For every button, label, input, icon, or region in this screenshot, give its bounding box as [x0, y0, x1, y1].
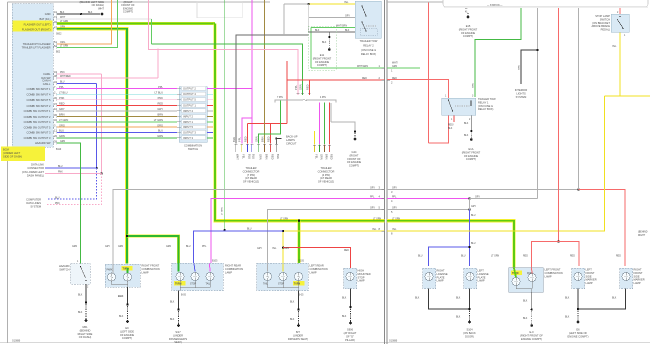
svg-text:GRN: GRN [60, 26, 65, 28]
svg-text:S906: S906 [347, 328, 354, 332]
right front combination lamp box [105, 264, 140, 287]
BCM pin ticks [54, 13, 57, 145]
svg-text:LAMP: LAMP [545, 274, 552, 278]
svg-text:(RIGHT FRONT: (RIGHT FRONT [313, 56, 332, 60]
svg-text:GRN: GRN [72, 246, 77, 248]
svg-text:LEFT REAR: LEFT REAR [310, 264, 324, 268]
svg-text:PILLAR): PILLAR) [345, 338, 355, 342]
right rear combination lamp caption [225, 264, 243, 275]
svg-text:GRY: GRY [157, 107, 163, 111]
hazard switch caption [59, 264, 70, 271]
svg-text:GRN: GRN [284, 248, 289, 250]
svg-text:INTERIOR: INTERIOR [515, 88, 528, 92]
svg-text:PNK: PNK [55, 203, 60, 205]
svg-text:LICENSE: LICENSE [437, 272, 448, 276]
svg-text:OF ENGINE: OF ENGINE [120, 333, 135, 337]
svg-text:SYSTEM: SYSTEM [516, 95, 527, 99]
svg-text:GRN: GRN [519, 65, 521, 70]
wire PPL switch to trailer run [207, 88, 252, 90]
svg-text:LIGHTS: LIGHTS [516, 91, 526, 95]
right page WHT/GRN stub [387, 67, 420, 69]
svg-text:ORG: ORG [60, 42, 65, 44]
wire LT GRN trailer lft flasher [57, 0, 117, 48]
svg-text:GRN: GRN [118, 246, 123, 248]
E1A caption [462, 147, 481, 161]
svg-text:COMBI SW OUTPUT 2: COMBI SW OUTPUT 2 [24, 115, 51, 119]
svg-text:BRN: BRN [260, 136, 264, 142]
svg-text:LT GRN: LT GRN [491, 256, 500, 258]
right page GRY run 1 [387, 189, 579, 191]
svg-text:YEL: YEL [314, 154, 318, 159]
svg-text:HAZARD: HAZARD [59, 264, 70, 268]
svg-text:RED: RED [270, 154, 274, 160]
svg-text:LT BLU: LT BLU [154, 90, 163, 94]
gray riser x308 [308, 4, 310, 32]
svg-text:(RIGHT FRONT: (RIGHT FRONT [462, 150, 481, 154]
svg-text:OUTPUT 4: OUTPUT 4 [183, 92, 196, 96]
wire LT BLU stub [207, 93, 213, 95]
svg-text:PPL: PPL [238, 137, 242, 142]
svg-text:COMBINATION: COMBINATION [184, 144, 202, 148]
svg-text:(ON FUSE &: (ON FUSE & [478, 104, 493, 108]
wire GRY front park feed [113, 190, 384, 265]
relay 1 caption [478, 97, 496, 111]
svg-text:GRN: GRN [319, 154, 323, 160]
svg-text:RIGHT: RIGHT [638, 235, 646, 237]
svg-text:PPL: PPL [370, 197, 375, 199]
svg-text:BLU: BLU [418, 256, 423, 258]
BCM location label text [3, 148, 22, 159]
stop lamp switch internals [617, 19, 623, 28]
svg-text:HIGH: HIGH [358, 269, 365, 273]
svg-text:BLK: BLK [60, 12, 65, 14]
svg-text:COMBINATION: COMBINATION [142, 267, 160, 271]
svg-text:COMBI SW INPUT 2: COMBI SW INPUT 2 [26, 104, 51, 108]
svg-text:LAMPS: LAMPS [286, 138, 295, 142]
svg-text:RED: RED [570, 256, 575, 258]
svg-text:ENGINE COMPT): ENGINE COMPT) [568, 335, 589, 339]
svg-text:TRAILER RT FLASHER: TRAILER RT FLASHER [23, 42, 51, 46]
svg-text:RED: RED [59, 102, 65, 106]
svg-text:LEFT: LEFT [478, 269, 485, 273]
wire RED stub [207, 105, 213, 107]
svg-text:BLK: BLK [464, 135, 469, 137]
svg-text:OUTPUT 3: OUTPUT 3 [183, 130, 196, 134]
svg-text:BLU: BLU [55, 197, 60, 199]
svg-text:RIGHT: RIGHT [634, 268, 642, 272]
svg-text:SIDE: SIDE [634, 274, 640, 278]
dark feeder wire from relay area to trailer pin [236, 35, 309, 144]
combination switch row labels [183, 87, 196, 140]
svg-text:BLK: BLK [342, 298, 347, 300]
svg-text:E9: E9 [125, 326, 129, 330]
svg-text:BLU: BLU [60, 82, 65, 84]
yellow highlight flasher out labels [13, 21, 53, 32]
svg-text:BLU: BLU [247, 154, 251, 159]
svg-text:BLU: BLU [186, 246, 191, 248]
svg-text:YEL: YEL [344, 2, 349, 4]
relay 2 caption [360, 39, 378, 56]
BCM top note text (behind left side of dash) [80, 0, 105, 10]
svg-text:WHT/RED: WHT/RED [60, 76, 71, 78]
svg-text:(7 PIN): (7 PIN) [247, 173, 255, 177]
svg-text:DOOR): DOOR) [465, 335, 474, 339]
svg-text:BLK: BLK [322, 42, 327, 44]
svg-text:PPL: PPL [158, 85, 163, 89]
svg-text:(UNDER LEFT: (UNDER LEFT [3, 151, 21, 155]
svg-text:BLK: BLK [290, 319, 295, 321]
svg-text:FRONT OF: FRONT OF [347, 157, 361, 161]
WHT/GRN riser to divider crossing [310, 28, 312, 69]
svg-text:BLK: BLK [232, 137, 236, 142]
svg-text:SWITCH: SWITCH [188, 147, 198, 151]
svg-text:MARKER: MARKER [634, 278, 645, 282]
svg-text:OF DASH): OF DASH) [79, 335, 92, 339]
svg-text:LAMP: LAMP [225, 270, 232, 274]
svg-text:BLU: BLU [471, 215, 476, 217]
svg-text:RED: RED [523, 256, 528, 258]
svg-text:WHT/: WHT/ [392, 63, 398, 65]
ground G24 wire [330, 103, 332, 122]
high mounted stop lamp caption [358, 269, 371, 283]
svg-text:STOP LAMP: STOP LAMP [595, 14, 610, 18]
trailer connector 4pin caption [318, 166, 335, 184]
svg-text:GND: GND [45, 12, 51, 16]
right rear lamp ground chain [178, 291, 180, 309]
svg-text:PLATE: PLATE [478, 275, 486, 279]
svg-text:(LEFT SIDE: (LEFT SIDE [120, 329, 134, 333]
svg-text:BLK: BLK [290, 302, 295, 304]
wire YEL into relay2 [309, 3, 355, 5]
svg-text:OF ENGINE: OF ENGINE [315, 60, 330, 64]
wire BRN stub [207, 116, 213, 118]
svg-text:RED: RED [305, 84, 309, 90]
svg-text:TRAILER TOW: TRAILER TOW [360, 39, 378, 43]
svg-text:BLK: BLK [612, 298, 617, 300]
LT GRN flasher left run down and across page (highlighted) [215, 24, 384, 221]
svg-text:LAMP: LAMP [310, 270, 317, 274]
pins above bracket ticks [297, 93, 311, 95]
svg-text:LT GRN: LT GRN [60, 21, 69, 23]
svg-text:LAMP: LAMP [437, 279, 444, 283]
stop lamp switch caption [592, 14, 611, 32]
svg-text:E-0: E-0 [529, 330, 534, 334]
wire BLU CAN [57, 83, 97, 85]
svg-text:BLK: BLK [456, 317, 461, 319]
svg-text:PPL: PPL [202, 246, 207, 248]
svg-text:GRN: GRN [473, 83, 475, 88]
LT GRN branch to left rear lamp (highlighted) [297, 221, 300, 264]
svg-text:COMPT): COMPT) [123, 10, 133, 14]
svg-text:(AT RIGHT: (AT RIGHT [344, 331, 357, 335]
RED riser from top [428, 3, 430, 144]
svg-text:BLK: BLK [523, 301, 528, 303]
svg-text:GRN: GRN [166, 246, 171, 248]
svg-text:OF "D": OF "D" [346, 335, 354, 339]
svg-text:FRONT: FRONT [586, 271, 595, 275]
svg-text:CAN-H: CAN-H [42, 79, 50, 83]
svg-text:(RIGHT FRONT: (RIGHT FRONT [459, 27, 478, 31]
svg-text:BLK: BLK [170, 302, 175, 304]
svg-text:RED: RED [266, 136, 270, 142]
svg-text:INPUT 4: INPUT 4 [183, 109, 193, 113]
RED marker feeds [558, 7, 560, 242]
combination switch box [179, 87, 207, 143]
svg-text:TRAILER: TRAILER [321, 166, 332, 170]
svg-text:RED: RED [344, 250, 349, 252]
svg-text:GRN: GRN [60, 141, 65, 143]
svg-text:RELAY BOX): RELAY BOX) [478, 107, 493, 111]
svg-text:LEFT FRONT: LEFT FRONT [545, 268, 561, 272]
4pin pin labels [314, 154, 333, 160]
page divider double line [384, 0, 386, 344]
svg-text:CONNECTOR: CONNECTOR [27, 166, 44, 170]
svg-text:CONNECTOR: CONNECTOR [243, 169, 260, 173]
E1A ground below relay1 [470, 115, 472, 130]
svg-text:(RIGHT FRONT OF: (RIGHT FRONT OF [520, 333, 543, 337]
ground G24 caption [347, 150, 362, 168]
4pin pin stubs [315, 145, 330, 153]
combi row color labels right [154, 85, 164, 138]
switch row pin ticks [177, 89, 181, 138]
7pin upper wire labels vertical [232, 136, 271, 142]
svg-text:RED: RED [243, 136, 247, 142]
left rear combination lamp box [257, 263, 308, 291]
RED feed to high mounted stop lamp [283, 248, 351, 268]
svg-text:E11: E11 [320, 53, 325, 57]
svg-text:DASH PANEL): DASH PANEL) [27, 173, 44, 177]
GRN feed to relay1 [475, 7, 521, 97]
svg-text:PEDAL): PEDAL) [601, 28, 611, 32]
svg-text:TURN: TURN [294, 283, 301, 285]
svg-text:BLK: BLK [119, 316, 124, 318]
svg-text:LAMP: LAMP [586, 281, 593, 285]
svg-text:BLK: BLK [464, 123, 469, 125]
RED cross connector run [248, 123, 288, 125]
svg-text:ENGINE COMPT): ENGINE COMPT) [521, 337, 542, 341]
svg-text:LT GRN: LT GRN [280, 219, 289, 221]
svg-text:GRN: GRN [258, 154, 262, 160]
wire LT GRN stub [207, 121, 213, 123]
wire BLK into relay2 with E11 ground [309, 31, 355, 33]
svg-text:COMPT): COMPT) [317, 63, 327, 67]
svg-text:OUTPUT 5: OUTPUT 5 [183, 98, 196, 102]
svg-text:FLASHER OUT (RIGHT): FLASHER OUT (RIGHT) [22, 28, 51, 32]
svg-text:BLK: BLK [78, 295, 83, 297]
svg-text:(ON BACK: (ON BACK [463, 331, 476, 335]
right rear combination lamp bulbs [176, 272, 184, 280]
BLU vertical to data link [96, 84, 98, 168]
combination switch row chips [182, 87, 206, 140]
svg-text:(ON FUSE &: (ON FUSE & [361, 48, 376, 52]
wire BLK GND with ground G [57, 13, 100, 15]
svg-text:7 PIN: 7 PIN [277, 97, 283, 99]
svg-text:SWITCH: SWITCH [59, 267, 69, 271]
svg-text:BLK: BLK [456, 298, 461, 300]
svg-text:COMPT): COMPT) [122, 336, 132, 340]
svg-text:LT GRN: LT GRN [60, 46, 69, 48]
svg-text:PARK: PARK [527, 272, 534, 275]
svg-text:S104: S104 [466, 328, 473, 332]
svg-text:RED: RED [362, 78, 367, 80]
svg-text:SIDE OF DASH): SIDE OF DASH) [3, 155, 22, 159]
svg-text:(ON BRACKET: (ON BRACKET [592, 21, 610, 25]
svg-text:(AT REAR: (AT REAR [245, 176, 257, 180]
wire WHT/GRN into relay2 [311, 27, 355, 29]
svg-text:PNK: PNK [59, 96, 65, 100]
svg-text:COMBI SW OUTPUT 1: COMBI SW OUTPUT 1 [24, 109, 51, 113]
left rear combination lamp bulbs [263, 272, 271, 280]
stop lamp switch box [611, 14, 629, 32]
svg-text:COMPT): COMPT) [463, 34, 473, 38]
trailer connector 7pin caption [243, 166, 260, 184]
E11 ground dashed green box [308, 26, 336, 70]
wire PPL rear tail feed [211, 199, 384, 264]
svg-text:BLK: BLK [118, 294, 123, 298]
right page PPL run [387, 198, 470, 200]
svg-text:TRAILER TOW: TRAILER TOW [478, 97, 496, 101]
svg-text:G10080: G10080 [12, 341, 21, 343]
svg-text:GRN: GRN [157, 134, 163, 138]
svg-text:RIGHT REAR: RIGHT REAR [225, 264, 241, 268]
svg-text:STOP: STOP [358, 275, 365, 279]
right rear combination lamp box [172, 263, 223, 291]
svg-text:(AT REAR: (AT REAR [320, 176, 332, 180]
svg-text:BLK: BLK [345, 30, 350, 32]
svg-text:E6: E6 [576, 328, 580, 332]
svg-text:BLK: BLK [415, 298, 420, 300]
wire GRN hazard sw [57, 143, 81, 264]
svg-text:TURN: TURN [175, 283, 182, 285]
wire WHT/RED ign sw [57, 77, 158, 79]
svg-text:COMBI SW INPUT 4: COMBI SW INPUT 4 [26, 92, 51, 96]
svg-text:(BEHIND: (BEHIND [80, 328, 91, 332]
svg-text:E15: E15 [466, 24, 471, 28]
svg-text:ABOVE BRAKE: ABOVE BRAKE [592, 24, 611, 28]
svg-text:RELAY 1: RELAY 1 [478, 100, 489, 104]
right front marker ground link [578, 289, 625, 310]
svg-text:S/17: S/17 [175, 330, 181, 334]
svg-text:RED/: RED/ [448, 125, 454, 127]
RED/BLK stub below relay1 [453, 115, 455, 122]
GRN vertical long riser [224, 0, 226, 230]
trailer tow relay 1 box [442, 98, 476, 115]
wire GRY stub [207, 110, 213, 112]
high mounted stop lamp ground chain S906 [350, 289, 352, 307]
svg-text:BRN: BRN [59, 113, 65, 117]
left front marker ground chain E6 [577, 289, 579, 309]
svg-text:YEL: YEL [242, 154, 246, 159]
svg-text:OF VEHICLE): OF VEHICLE) [243, 180, 259, 184]
BLU license lamps feed [469, 210, 471, 267]
svg-text:LT BLU: LT BLU [59, 90, 68, 94]
interior lights branch [536, 49, 538, 51]
svg-text:M61: M61 [82, 325, 88, 329]
combi row color labels left [59, 85, 68, 138]
right page RED feed to relay1 [387, 80, 448, 144]
svg-text:DRIVER'S SEAT): DRIVER'S SEAT) [288, 337, 308, 341]
hazard switch ground chain M61 [85, 284, 87, 302]
PPL branch jog to second pin [242, 118, 252, 144]
svg-text:COMBI SW OUTPUT 5: COMBI SW OUTPUT 5 [24, 125, 51, 129]
svg-text:COMBINATION: COMBINATION [310, 267, 328, 271]
svg-text:STOP: STOP [278, 283, 285, 285]
svg-text:E1A: E1A [469, 147, 474, 151]
svg-text:BLK: BLK [342, 316, 347, 318]
svg-text:B02: B02 [56, 52, 61, 54]
svg-text:BLU: BLU [247, 229, 252, 231]
computer data lines system text [26, 198, 41, 209]
svg-text:COMPT): COMPT) [466, 157, 476, 161]
wire WHT BAT [57, 18, 151, 20]
svg-text:FRONT: FRONT [634, 271, 643, 275]
7pin pin labels vertical [236, 154, 281, 160]
7pin pin stubs row [236, 145, 277, 153]
BCM module box [12, 4, 53, 148]
svg-text:BRN: BRN [324, 154, 328, 160]
svg-text:G10080: G10080 [389, 341, 398, 343]
YEL from stop lamp switch [619, 32, 621, 96]
right front side marker lamp box [620, 268, 633, 289]
svg-text:SIDE: SIDE [586, 274, 592, 278]
E15 caption [459, 24, 478, 38]
BRN vertical from top [264, 0, 266, 144]
svg-text:TRAILER LFT FLASHER: TRAILER LFT FLASHER [22, 46, 51, 50]
PNK vertical to lower dash connector [101, 74, 103, 174]
svg-text:COMPUTER: COMPUTER [26, 198, 41, 202]
svg-text:LT GRN: LT GRN [154, 118, 163, 122]
svg-text:COMBI SW INPUT 3: COMBI SW INPUT 3 [26, 131, 51, 135]
yellow highlight BCM location label [1, 147, 45, 162]
svg-text:RED: RED [329, 154, 333, 160]
RED drop through bracket [286, 61, 288, 124]
svg-text:ORG: ORG [59, 123, 65, 127]
lamp joining wires [112, 281, 128, 287]
GRY continuation up [470, 198, 538, 200]
4pin drops [319, 103, 321, 145]
relay 1 internals [448, 100, 452, 111]
svg-text:BLU: BLU [252, 154, 256, 159]
svg-text:GRY: GRY [105, 246, 110, 248]
svg-text:PNK: PNK [60, 72, 65, 74]
svg-text:WHT: WHT [60, 17, 66, 19]
svg-text:LT GRN: LT GRN [59, 118, 68, 122]
trailer connector 7pin bracket [275, 100, 303, 103]
left front combination lamp box [509, 268, 543, 293]
svg-text:YEL: YEL [372, 229, 377, 231]
svg-text:BLU: BLU [461, 256, 466, 258]
svg-text:COMBINATION: COMBINATION [545, 271, 563, 275]
svg-text:INPUT 3: INPUT 3 [183, 136, 193, 140]
divider micro pin numbers [379, 64, 394, 236]
svg-text:4 PIN: 4 PIN [320, 97, 326, 99]
svg-text:RELAY 2: RELAY 2 [363, 43, 374, 47]
svg-text:COMBINATION: COMBINATION [225, 267, 243, 271]
right front combination lamp bulbs [107, 273, 115, 281]
E11 caption [313, 53, 332, 67]
data link connector stubs [45, 167, 97, 169]
svg-text:(LEFT SIDE OF: (LEFT SIDE OF [569, 331, 588, 335]
svg-text:GRN: GRN [392, 66, 397, 68]
svg-text:LEFT: LEFT [586, 268, 593, 272]
svg-text:PPL: PPL [59, 85, 64, 89]
left front side marker lamp box [572, 268, 585, 289]
PPL vertical from top edge to trailer pin [251, 0, 253, 144]
svg-text:YEL: YEL [272, 248, 277, 250]
E11 ground chain [328, 32, 330, 36]
svg-text:BLU: BLU [158, 129, 163, 133]
svg-text:CAN-L: CAN-L [43, 82, 51, 86]
